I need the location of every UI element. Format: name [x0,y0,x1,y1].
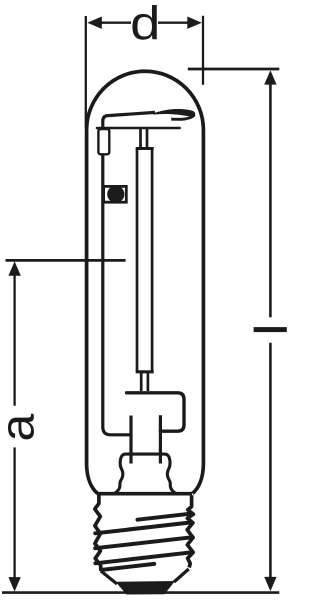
dim l: line lower segment [269,343,272,578]
dim l: top reference line [188,68,279,71]
insulator taper right [174,569,189,582]
arc tube top neck [141,129,148,148]
arc tube right wall [151,149,154,372]
frame wire bottom corner to lead junction [103,427,131,435]
base shell left zigzag wall [95,495,101,570]
svg-text:a: a [0,414,44,442]
support strap [97,127,180,130]
arc tube left wall [136,149,139,372]
getter box [98,129,109,154]
dim l: bottom arrowhead [264,577,276,591]
arc tube bottom neck [141,373,148,391]
dim d: right arrowhead [187,17,202,29]
lower support bracket [127,393,184,431]
base shell right zigzag wall [187,495,193,567]
svg-text:d: d [130,0,160,50]
dim a: line upper segment [13,274,15,406]
base top edge [97,492,192,496]
frame wire top corner and horizontal [103,112,155,121]
thread line T5 [102,564,154,570]
label l (rotated glyph drawn as bar) [254,327,287,332]
arc tube top cap [136,147,154,150]
dim l: line upper segment [269,83,272,317]
thread line T4 [95,552,191,563]
support hook head [152,109,195,117]
dim d: right extension line [202,16,204,85]
dim d: left arrowhead [87,17,102,29]
dim a: top arrowhead [8,261,20,275]
thread line T3 [95,537,192,548]
dim d: right shaft [158,22,189,24]
dim a: top reference line [6,259,126,262]
thread line T1 [138,514,191,520]
arc tube bottom cap [136,370,154,373]
ignition-aid dot [107,186,124,203]
stem pinch [113,454,178,494]
ignition-aid square [104,186,127,202]
left lead wire [129,416,132,464]
dim d: left shaft [99,22,131,24]
insulator taper left [101,571,117,584]
dim a: bottom arrowhead [8,577,20,591]
frame wire vertical [101,121,104,129]
outer bulb envelope [87,71,204,493]
dim a: line lower segment [13,447,15,578]
support hook curl [171,115,194,120]
dim d: left extension line [85,16,87,128]
dim l: top arrowhead [264,70,276,84]
right lead wire [159,415,162,463]
base bottom contact [116,581,176,595]
thread line T2 [95,522,191,533]
dim l: bottom reference line [2,591,279,594]
